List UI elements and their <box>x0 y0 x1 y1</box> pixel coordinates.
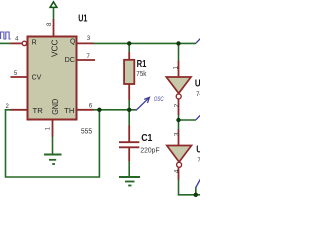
svg-text:220pF: 220pF <box>140 147 159 154</box>
svg-text:R1: R1 <box>137 59 147 70</box>
svg-text:VCC: VCC <box>50 39 59 57</box>
svg-text:DC: DC <box>65 57 75 64</box>
svg-text:TH: TH <box>64 108 74 115</box>
svg-text:GND: GND <box>51 99 60 115</box>
svg-text:R: R <box>32 40 37 47</box>
svg-text:75k: 75k <box>136 71 147 78</box>
svg-text:C1: C1 <box>141 133 153 144</box>
svg-text:U2: U2 <box>195 78 200 89</box>
svg-text:Q: Q <box>70 39 76 46</box>
svg-text:U2: U2 <box>196 145 200 156</box>
svg-text:TR: TR <box>33 108 43 115</box>
svg-text:OSC: OSC <box>154 97 164 103</box>
svg-text:74: 74 <box>198 157 201 163</box>
svg-text:U1: U1 <box>78 14 88 25</box>
svg-text:74: 74 <box>196 92 200 98</box>
svg-text:555: 555 <box>81 127 92 136</box>
svg-text:CV: CV <box>32 75 42 82</box>
